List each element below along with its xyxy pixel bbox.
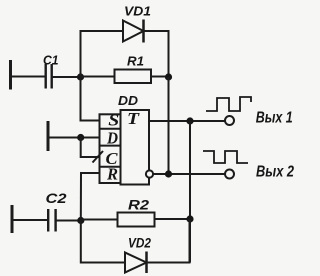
- wire node A to R1: [81, 76, 115, 78]
- wire node A up to VD1 anode: [81, 31, 124, 77]
- wire node F down to VD2 anode: [81, 221, 125, 263]
- svg-text:VD1: VD1: [124, 3, 151, 18]
- svg-text:R2: R2: [128, 198, 150, 213]
- input terminal T3 (bottom left): [11, 205, 14, 233]
- op-amp DD main box: [121, 110, 150, 185]
- wire T2 to D input: [48, 137, 100, 139]
- node C (D/C junction): [77, 134, 84, 141]
- svg-text:DD: DD: [118, 93, 139, 108]
- svg-text:T: T: [127, 109, 140, 128]
- input terminal T2 (D input): [47, 121, 50, 151]
- waveform symbol output 1: [206, 97, 251, 111]
- capacitor C1: [46, 64, 52, 89]
- svg-text:D: D: [106, 128, 118, 147]
- wire R1 to node B: [151, 76, 169, 78]
- wire T3 to C2: [12, 219, 48, 221]
- wire C2 to node F: [56, 220, 81, 222]
- output terminal Vyh1: [225, 116, 234, 125]
- capacitor C2: [48, 209, 55, 232]
- node E (Q-bar junction on line A): [165, 170, 172, 177]
- svg-text:C1: C1: [43, 52, 59, 67]
- wire C1 to node A: [52, 76, 81, 78]
- wire Q output to Vyh1: [149, 120, 225, 122]
- dynamic input slash on C: [93, 151, 104, 163]
- waveform symbol output 2: [203, 151, 248, 163]
- svg-text:Вых 2: Вых 2: [256, 163, 294, 180]
- wire node A to S input: [81, 77, 100, 121]
- resistor R2: [118, 213, 155, 227]
- wire R2 to node G: [155, 218, 191, 220]
- wire node F to R2: [81, 219, 118, 221]
- node D (Q output junction): [186, 117, 193, 124]
- wire Q-bar output to Vyh2: [153, 173, 225, 175]
- wire T1 to C1: [11, 76, 46, 78]
- svg-text:C2: C2: [46, 191, 68, 206]
- output terminal Vyh2: [225, 170, 234, 179]
- inverter bubble on R output: [146, 170, 153, 177]
- wire VD1 cathode to line A top: [144, 31, 169, 77]
- svg-text:R1: R1: [127, 53, 144, 68]
- wire VD2 cathode to line B bottom: [147, 219, 190, 263]
- wire node F to R input: [81, 173, 100, 221]
- resistor R1: [115, 70, 152, 84]
- wire line B (node D down to VD2 loop): [189, 121, 191, 263]
- svg-text:R: R: [106, 165, 118, 184]
- diode VD2: [125, 252, 147, 274]
- wire line A (node B down to inverted output wire): [168, 77, 170, 174]
- node A (C1/R1/VD1/S junction): [77, 73, 84, 80]
- svg-text:S: S: [108, 110, 119, 129]
- svg-text:Вых 1: Вых 1: [256, 109, 293, 126]
- diode VD1: [123, 20, 144, 43]
- node B (R1/VD1 junction on line A): [165, 73, 172, 80]
- wire node C to C input: [81, 138, 100, 158]
- svg-text:VD2: VD2: [128, 236, 151, 251]
- input terminal T1 (top left): [9, 60, 12, 90]
- node F (C2/R2/VD2/R junction): [77, 217, 84, 224]
- DD input label column: [100, 114, 121, 183]
- node G (R2/VD2 junction on line B): [186, 215, 193, 222]
